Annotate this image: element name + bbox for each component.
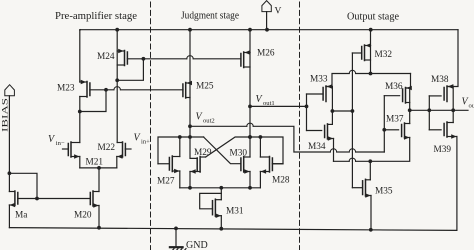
wire M26 source to rail bbox=[249, 30, 251, 53]
wire GND bottom rail bbox=[9, 228, 457, 231]
node dot M37 gate bbox=[382, 128, 386, 132]
svg-text:M27: M27 bbox=[157, 177, 175, 187]
wire M22 source down bbox=[116, 157, 118, 168]
wire M38 source from rail bbox=[448, 30, 458, 87]
wire M25 drain to latch bbox=[189, 126, 191, 137]
svg-text:Pre-amplifier stage: Pre-amplifier stage bbox=[55, 11, 138, 22]
node dot M25 source on rail bbox=[188, 28, 192, 32]
transistor M31 bbox=[213, 199, 222, 229]
label Vin- input left bbox=[48, 134, 65, 147]
transistor M28 bbox=[260, 137, 272, 188]
svg-text:IBIAS: IBIAS bbox=[1, 97, 10, 132]
wire tail to M20 drain bbox=[98, 168, 100, 192]
transistor M27 bbox=[169, 137, 179, 188]
wire M23 gate-drain loop bbox=[80, 90, 106, 112]
wire Vout1 to output stage bbox=[250, 105, 307, 107]
label Vout1 bbox=[256, 94, 275, 107]
wire M23 drain down bbox=[79, 97, 81, 112]
wire gate line M24-M26 bbox=[127, 56, 240, 59]
node dot IBIAS / Ma drain-gate tie bbox=[7, 171, 11, 175]
wire cross-couple diagonal from M29 drain bbox=[206, 137, 283, 164]
svg-text:M20: M20 bbox=[74, 211, 92, 221]
wire M33/M34 gate vertical bbox=[306, 94, 308, 131]
wire Vout lead bbox=[453, 109, 468, 111]
wire gate line Ma-M20 bbox=[18, 198, 90, 200]
label M27 bbox=[157, 177, 175, 187]
svg-text:M29: M29 bbox=[194, 148, 212, 158]
svg-text:out2: out2 bbox=[203, 117, 215, 124]
wire M33/M34 drain link bbox=[331, 111, 333, 124]
wire M35 drain up bbox=[369, 161, 371, 180]
current source IBIAS arrow symbol bbox=[5, 85, 15, 96]
transistor M30 bbox=[241, 157, 250, 188]
wire cross-couple diagonal to M30 gate bbox=[204, 137, 241, 164]
wire M27 gate lead bbox=[158, 163, 169, 165]
svg-text:M23: M23 bbox=[57, 84, 75, 94]
stage title: Judgment stage bbox=[181, 11, 240, 22]
svg-text:Judgment stage: Judgment stage bbox=[181, 11, 240, 22]
label M39 bbox=[434, 145, 452, 155]
wire M24 gate-drain loop bbox=[117, 59, 143, 81]
wire M28 gate lead bbox=[272, 163, 283, 165]
node dot M33 drain bbox=[331, 109, 335, 113]
wire M35 gate lead bbox=[352, 187, 362, 189]
wire M29 gate connection bbox=[190, 137, 197, 158]
arrow M33 source (PMOS) bbox=[327, 84, 332, 89]
svg-text:M21: M21 bbox=[86, 158, 104, 168]
transistor M38 bbox=[444, 84, 453, 110]
wire M26 drain to latch bbox=[249, 106, 251, 157]
node dot M29 source on tail bbox=[188, 186, 192, 190]
svg-text:out: out bbox=[469, 103, 474, 110]
node dot V supply on rail bbox=[265, 28, 269, 32]
transistor M37 bbox=[402, 110, 410, 140]
wire M35 source to GND rail bbox=[370, 196, 372, 230]
label M20 bbox=[74, 211, 92, 221]
wire IBIAS vertical bbox=[8, 96, 10, 174]
label M37 bbox=[386, 115, 404, 125]
node dot M26 source on rail bbox=[248, 28, 252, 32]
wire M31 drain up bbox=[220, 188, 222, 200]
label GND bbox=[186, 240, 208, 250]
wire Vout2 to output stage bbox=[190, 123, 384, 152]
node dot M23 drain junction bbox=[78, 110, 82, 114]
svg-text:M39: M39 bbox=[434, 145, 452, 155]
wire M38 gate lead bbox=[429, 95, 441, 97]
svg-text:M31: M31 bbox=[226, 207, 244, 217]
label M38 bbox=[431, 75, 449, 85]
transistor M23 bbox=[80, 80, 90, 97]
node dot latch left mid bbox=[188, 135, 192, 139]
label IBIAS (rotated) bbox=[1, 97, 10, 132]
svg-text:Ma: Ma bbox=[15, 211, 27, 221]
svg-text:M22: M22 bbox=[98, 143, 116, 153]
node dot M38/M39 gate tap bbox=[427, 108, 431, 112]
arrow M38 source (PMOS) bbox=[448, 84, 453, 89]
wire M38/M39 gate vertical bbox=[428, 96, 430, 130]
node dot M27 drain bbox=[178, 135, 182, 139]
wire M36 gate lead bbox=[384, 95, 399, 97]
label V supply bbox=[275, 7, 282, 17]
label M29 bbox=[194, 148, 212, 158]
node dot M20 source on GND rail bbox=[97, 226, 101, 230]
wire M32 source to rail bbox=[370, 30, 372, 46]
wire M24 source to rail bbox=[116, 30, 118, 51]
node dot M30 source on tail bbox=[248, 186, 252, 190]
label M25 bbox=[196, 82, 214, 92]
node dot latch right top bbox=[248, 135, 252, 139]
transistor Ma bbox=[9, 191, 17, 228]
wire latch tail bbox=[180, 187, 261, 189]
transistor M25 bbox=[183, 81, 192, 127]
ground symbol bbox=[170, 228, 186, 250]
wire M21 gate lead bbox=[63, 148, 69, 150]
wire M32 gate / M35 gate vertical bbox=[351, 53, 353, 188]
node dot M31 source on GND rail bbox=[219, 227, 223, 231]
transistor M36 bbox=[403, 86, 412, 111]
node dot M36/M37 drains bbox=[408, 108, 412, 112]
label Ma bbox=[15, 211, 27, 221]
label M23 bbox=[57, 84, 75, 94]
node dot M32 source on rail bbox=[369, 28, 373, 32]
stage title: Output stage bbox=[347, 12, 400, 23]
label M36 bbox=[385, 82, 403, 92]
wire Ma drain up bbox=[8, 173, 10, 191]
wire M33 gate lead bbox=[307, 93, 324, 95]
label M24 bbox=[97, 52, 115, 62]
node dot Ma gate line bbox=[35, 197, 39, 201]
wire M39 gate lead bbox=[429, 129, 441, 131]
transistor M32 bbox=[362, 43, 371, 73]
wire M23-M21 drain link bbox=[79, 112, 81, 143]
svg-text:M24: M24 bbox=[97, 52, 115, 62]
wire M24 drain to M22 drain bbox=[116, 80, 118, 142]
node dot diff tail bbox=[97, 166, 101, 170]
node dot M23 gate loop bbox=[104, 88, 108, 92]
wire Ma diode connection bbox=[9, 173, 37, 198]
wire diff pair tail bbox=[80, 167, 117, 169]
wire M32 gate lead bbox=[352, 52, 361, 54]
node dot M32 gate on drain wire bbox=[351, 109, 355, 113]
wire M34 gate lead bbox=[307, 130, 322, 132]
wire M22 gate lead bbox=[125, 148, 131, 150]
stage separator dashed line 1 bbox=[150, 2, 152, 250]
label M26 bbox=[257, 49, 275, 59]
label M34 bbox=[308, 142, 326, 152]
transistor M21 bbox=[68, 142, 80, 168]
svg-text:M26: M26 bbox=[257, 49, 275, 59]
wire M31 gate-drain loop bbox=[200, 193, 222, 208]
svg-text:M30: M30 bbox=[230, 149, 248, 159]
label Vin+ input right bbox=[134, 133, 151, 146]
svg-text:V: V bbox=[275, 7, 282, 17]
label M28 bbox=[272, 176, 290, 186]
label M32 bbox=[375, 50, 393, 60]
svg-text:Output stage: Output stage bbox=[347, 12, 400, 23]
svg-text:V: V bbox=[48, 134, 56, 145]
wire drain wire M33-M32gate bbox=[332, 110, 352, 112]
svg-text:M25: M25 bbox=[196, 82, 214, 92]
transistor M35 bbox=[363, 179, 371, 198]
label M22 bbox=[98, 143, 116, 153]
transistor M29 bbox=[190, 157, 200, 188]
svg-text:GND: GND bbox=[186, 240, 208, 250]
transistor M20 bbox=[90, 191, 99, 228]
stage title: Pre-amplifier stage bbox=[55, 11, 138, 22]
wire M34 source down to wire B bbox=[333, 139, 335, 162]
svg-text:in−: in− bbox=[56, 140, 65, 147]
wire B M34 source to M37 source bbox=[334, 138, 410, 162]
power supply V symbol bbox=[262, 1, 271, 30]
wire M36/M37 gate vertical bbox=[383, 96, 385, 152]
wire drain wire to Vout bbox=[410, 109, 454, 111]
label M33 bbox=[310, 75, 328, 85]
node dot M24 drain junction bbox=[115, 78, 119, 82]
transistor M39 bbox=[444, 110, 457, 139]
node dot M28 drain bbox=[259, 135, 263, 139]
wire M23 source to rail bbox=[79, 30, 82, 82]
wire M29 drain lead bbox=[200, 156, 206, 158]
node dot GND stub on rail bbox=[174, 226, 178, 230]
wire M37 gate lead bbox=[384, 129, 398, 131]
label M21 bbox=[86, 158, 104, 168]
wire M33 source to M32 drain bbox=[326, 70, 411, 86]
transistor M26 bbox=[241, 50, 250, 106]
transistor M22 bbox=[117, 142, 126, 159]
wire VDD top rail bbox=[80, 29, 458, 31]
svg-text:M35: M35 bbox=[375, 187, 393, 197]
svg-text:M28: M28 bbox=[272, 176, 290, 186]
wire latch left horizontal bbox=[158, 137, 204, 164]
label M30 bbox=[230, 149, 248, 159]
label Vout2 bbox=[196, 112, 215, 125]
svg-text:M37: M37 bbox=[386, 115, 404, 125]
node dot M24 source on rail bbox=[115, 28, 119, 32]
node dot M35 drain on wire B bbox=[368, 159, 372, 163]
svg-text:M34: M34 bbox=[308, 142, 326, 152]
wire M39 source to GND rail bbox=[456, 137, 458, 231]
transistor M34 bbox=[325, 124, 334, 141]
wire gate line M23-M25 bbox=[90, 87, 183, 90]
svg-text:in+: in+ bbox=[141, 139, 150, 146]
node dot M24 gate line bbox=[142, 57, 146, 61]
node dot M33 gate on Vout1 bbox=[305, 105, 309, 109]
transistor M33 bbox=[323, 84, 332, 111]
node dot Vout1 node bbox=[248, 105, 252, 109]
svg-text:M32: M32 bbox=[375, 50, 393, 60]
wire M25 source to rail bbox=[189, 30, 191, 83]
svg-text:M38: M38 bbox=[431, 75, 449, 85]
svg-text:out1: out1 bbox=[263, 100, 275, 107]
svg-text:M36: M36 bbox=[385, 82, 403, 92]
node dot Vout junction bbox=[451, 108, 455, 112]
node dot M35 source on rail bbox=[369, 228, 373, 232]
wire M36 source down bbox=[406, 74, 410, 89]
node dot Vout2 node bbox=[188, 124, 192, 128]
svg-text:M33: M33 bbox=[310, 75, 328, 85]
label M31 bbox=[226, 207, 244, 217]
label M35 bbox=[375, 187, 393, 197]
node dot M32 drain bbox=[369, 72, 373, 76]
label Vout bbox=[462, 97, 474, 110]
stage separator dashed line 2 bbox=[299, 2, 301, 250]
transistor M24 bbox=[117, 49, 127, 81]
node dot M31 drain on tail bbox=[219, 186, 223, 190]
node dot M30 drain bbox=[248, 135, 252, 139]
